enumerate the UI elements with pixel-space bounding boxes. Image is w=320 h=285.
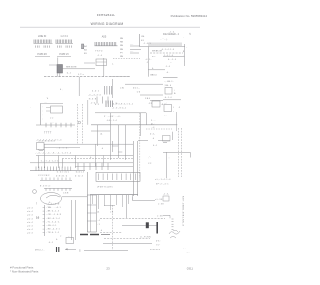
relay K1 box bbox=[57, 65, 63, 74]
wire bus E y162 bbox=[30, 162, 133, 164]
svg-text:4 : 4 -: 4 : 4 - bbox=[150, 134, 155, 136]
svg-text:= b : 4: = b : 4 bbox=[27, 229, 34, 231]
ice maker housing left edge bbox=[138, 34, 140, 47]
control module top edge bbox=[163, 77, 178, 79]
svg-text:: 4: : 4 bbox=[100, 230, 102, 232]
svg-text:4 : 1 | : 4: 4 : 1 | : 4 bbox=[75, 176, 84, 178]
ground stud dark bbox=[57, 247, 59, 252]
svg-text:(: ( bbox=[36, 201, 37, 205]
wire dashed y232 bbox=[100, 231, 122, 233]
bottom arrow wire bbox=[65, 248, 76, 250]
wire comb right vert bbox=[131, 195, 133, 201]
control board inner wire 1 bbox=[46, 107, 51, 109]
wire relay to bus bbox=[59, 73, 61, 77]
svg-text:0311: 0311 bbox=[187, 267, 194, 271]
svg-text:L : 3 8: L : 3 8 bbox=[158, 204, 164, 206]
svg-text:- 1 : 4 -: - 1 : 4 - bbox=[163, 194, 169, 196]
vertical label column bbox=[182, 196, 184, 226]
wire comb right bbox=[132, 199, 155, 201]
wire solid y243 bbox=[103, 242, 152, 244]
wire y205 jog bbox=[104, 204, 115, 206]
wire drop x140 bbox=[139, 113, 141, 136]
relay ladder down ticks bbox=[46, 188, 70, 191]
wire distribution short bbox=[91, 130, 110, 132]
svg-text:= b : 4: = b : 4 bbox=[27, 233, 34, 235]
wire cross y166 bbox=[75, 166, 133, 168]
svg-text:NN: NN bbox=[120, 56, 124, 58]
defrost heater box bbox=[163, 136, 171, 142]
mid ladder ticks bbox=[78, 163, 108, 170]
connector P2 underline bbox=[56, 43, 74, 45]
svg-text:, . , .: , . , . bbox=[50, 122, 54, 124]
wire stub x84 bbox=[84, 62, 95, 64]
wire bus feed right bbox=[147, 47, 149, 77]
svg-text:NN: NN bbox=[120, 49, 124, 51]
ice maker pin ticks bbox=[149, 43, 181, 47]
svg-text:- 4 : 1 - 4 : 1 - 4: - 4 : 1 - 4 : 1 - 4 bbox=[161, 49, 174, 51]
terminal row gray tail bbox=[101, 234, 110, 236]
svg-text:4 : 8 : 4 1 : 4: 4 : 8 : 4 1 : 4 bbox=[56, 176, 68, 178]
control board top edge bbox=[40, 103, 63, 105]
legend small box bbox=[66, 238, 74, 244]
thermistor RT1 dashed wire A bbox=[76, 104, 78, 144]
wire left tall x87 bbox=[86, 172, 88, 232]
terminal vertical v62 bbox=[61, 159, 63, 168]
wire shelf y225 bbox=[122, 224, 158, 226]
terminal n blob bbox=[82, 44, 84, 49]
svg-text:5 . . -: 5 . . - bbox=[151, 120, 156, 122]
connector P2 name underline bbox=[57, 56, 71, 58]
wire right vertical x166 bbox=[165, 152, 167, 178]
svg-text:NN: NN bbox=[120, 38, 124, 40]
svg-text:: 5: : 5 bbox=[178, 107, 180, 109]
svg-text:C S R: C S R bbox=[63, 193, 69, 195]
svg-text:- 4 :: - 4 : bbox=[166, 72, 170, 74]
svg-text:NOT-USED-4081-NN-4: NOT-USED-4081-NN-4 bbox=[182, 196, 184, 226]
svg-text:: 1 - 4: : 1 - 4 bbox=[165, 66, 170, 68]
svg-text:- 1 : 4: - 1 : 4 bbox=[97, 55, 102, 57]
svg-text:4 . 4 : 1: 4 . 4 : 1 bbox=[92, 91, 100, 93]
svg-text:- YL . 4 . -4 : 1 .: - YL . 4 . -4 : 1 . bbox=[47, 221, 61, 223]
svg-text:I.M.: I.M. bbox=[141, 36, 145, 38]
wire bus B y147 bbox=[44, 146, 80, 148]
connector P6 bars bbox=[106, 101, 113, 108]
wire compressor out bbox=[62, 196, 87, 198]
svg-text:L : 3 8: L : 3 8 bbox=[157, 216, 163, 218]
svg-text:5 ' . - : 4 0 ' : . - 4 :: 5 ' . - : 4 0 ' : . - 4 : bbox=[104, 116, 121, 118]
svg-text:: 4 - 1: : 4 - 1 bbox=[48, 242, 54, 244]
svg-text:- OR . . -1 . 4 : 8: - OR . . -1 . 4 : 8 bbox=[47, 214, 62, 216]
compressor top arc bbox=[46, 195, 60, 198]
wire drop x125 bbox=[124, 125, 126, 160]
ice maker housing bottom edge bbox=[139, 46, 185, 48]
wire shelf y100 bbox=[150, 99, 163, 101]
control board left edge bbox=[39, 104, 41, 126]
svg-text:- BK : 4 - 1 . 4: - BK : 4 - 1 . 4 bbox=[47, 211, 60, 213]
dark vertical bar bbox=[156, 222, 158, 234]
svg-text:16: 16 bbox=[36, 216, 40, 220]
svg-text:* Non-Illustrated Parts: * Non-Illustrated Parts bbox=[10, 270, 39, 274]
svg-text:SEE NOTE: SEE NOTE bbox=[66, 67, 77, 69]
wire bus A y144 bbox=[44, 143, 133, 145]
svg-text:4L: 4L bbox=[162, 104, 164, 106]
start device inner mark bbox=[96, 61, 107, 63]
wire vertical x103 bbox=[102, 156, 104, 167]
right tick y142 bbox=[163, 141, 167, 143]
connector P2 wire stubs bbox=[58, 46, 62, 48]
wire bus C y155 bbox=[36, 155, 133, 157]
svg-text:C 2 C 2 E 2: C 2 C 2 E 2 bbox=[38, 175, 50, 177]
dark junction block bbox=[146, 223, 149, 229]
svg-text:- WH . . . . -4 : 1: - WH . . . . -4 : 1 bbox=[47, 207, 62, 209]
thermistor RT1 dashed wire B bbox=[81, 104, 83, 144]
center cluster tall bars bbox=[105, 86, 112, 95]
wire right shelf stub bbox=[189, 152, 191, 157]
svg-text:LINE IN: LINE IN bbox=[38, 35, 47, 38]
svg-text:: - 4: : - 4 bbox=[151, 127, 154, 129]
right lower box bbox=[163, 196, 169, 201]
wire trunk x137 bbox=[136, 141, 138, 196]
wire dashed y238 bbox=[104, 238, 150, 240]
water valve inner rung 3 bbox=[87, 220, 96, 222]
svg-text:: 4 - 1 : 4 - 8 : 4 - 1 : 4 -: : 4 - 1 : 4 - 8 : 4 - 1 : 4 - 1 bbox=[112, 104, 133, 106]
connector P1 name underline bbox=[35, 56, 50, 58]
svg-text:P.WR.V3: P.WR.V3 bbox=[59, 54, 69, 56]
svg-text:: 4 | 1 : | 4: : 4 | 1 : | 4 bbox=[75, 172, 85, 174]
wire right shelf y152 bbox=[163, 151, 190, 153]
svg-text:= L : 3 8: = L : 3 8 bbox=[155, 199, 163, 201]
svg-text:: 8 . 3 : 8: : 8 . 3 : 8 bbox=[88, 99, 97, 101]
svg-text:3 F : 2 : - 4 : 1: 3 F : 2 : - 4 : 1 bbox=[156, 184, 169, 186]
wire module bottom bbox=[163, 99, 181, 101]
svg-text:: 4: : 4 bbox=[101, 148, 103, 150]
svg-text:A55: A55 bbox=[102, 36, 107, 39]
svg-text:: 4 - 1 : 4: : 4 - 1 : 4 bbox=[164, 97, 171, 99]
defrost heater dotted top bbox=[146, 128, 172, 130]
node bus junction bbox=[78, 77, 80, 96]
svg-text:| : | :: | : | : bbox=[50, 118, 54, 120]
svg-text:4 0 1 .-: 4 0 1 .- bbox=[133, 88, 140, 90]
svg-text:= b : 4: = b : 4 bbox=[27, 211, 34, 213]
wire vertical x95 bbox=[94, 144, 96, 166]
svg-text:# 5 °: # 5 ° bbox=[156, 245, 160, 247]
wire right dashed B bbox=[180, 128, 182, 177]
dark terminal row bbox=[80, 234, 99, 236]
terminal block J10 pins bbox=[99, 174, 136, 181]
terminal strip comb bbox=[36, 167, 71, 171]
svg-text:NN: NN bbox=[120, 42, 124, 44]
wire top right horizontal bbox=[148, 69, 165, 71]
svg-text:- 1 : 4 : - 8 : 4 - 1: - 1 : 4 : - 8 : 4 - 1 bbox=[112, 108, 126, 110]
svg-text:GBV-4: GBV-4 bbox=[150, 75, 157, 77]
svg-text:= b : 4: = b : 4 bbox=[27, 208, 34, 210]
svg-text:= b : 4: = b : 4 bbox=[27, 222, 34, 224]
svg-text:- BU : -4 : 1 - 4: - BU : -4 : 1 - 4 bbox=[47, 218, 61, 220]
svg-text:. - . .: . - . . bbox=[186, 252, 190, 254]
svg-text:. . . 4 . . 1 . . 4 . .: . . . 4 . . 1 . . 4 . . bbox=[56, 148, 69, 150]
thermostat box bbox=[165, 88, 172, 95]
defrost heater bottom right bbox=[158, 140, 170, 142]
wire staircase step2 bbox=[118, 151, 122, 153]
svg-text:L L , F L N N: L L , F L N N bbox=[140, 237, 151, 239]
wire drop x97 bbox=[96, 125, 98, 146]
connector P5 dash row bbox=[150, 52, 183, 54]
connector P1 pin row bbox=[34, 40, 51, 44]
svg-text:- 4 - 1 - 4 - 1 - 4 - 1 - 4 :: - 4 - 1 - 4 - 1 - 4 - 1 - 4 : 1 - 4 bbox=[36, 140, 62, 142]
wire distribution mid bbox=[91, 124, 177, 126]
compressor run circle bbox=[41, 193, 62, 205]
wire x126 long bbox=[125, 195, 127, 218]
dotted row under connectors bbox=[113, 57, 140, 59]
control board inner wire 2 bbox=[46, 110, 51, 112]
svg-text:- : - 4 - : - 4 - : - 4 - : -: - : - 4 - : - 4 - : - 4 - : - 8 - : - 4 … bbox=[35, 153, 71, 155]
svg-text:4 : 4: 4 : 4 bbox=[153, 145, 157, 147]
svg-text:FFHS2611L: FFHS2611L bbox=[97, 13, 115, 17]
svg-text:~; .:B4 -1 :: ~; .:B4 -1 : bbox=[164, 81, 174, 83]
wire right top horizontal bbox=[163, 56, 185, 58]
relay ladder bottom rail bbox=[44, 187, 72, 189]
svg-text:: 0 4 : - 1 : 4: : 0 4 : - 1 : 4 bbox=[106, 120, 118, 122]
terminal block J10 box bbox=[96, 172, 140, 181]
connector P1 wire stubs bbox=[36, 46, 40, 48]
svg-text:WH BK OR: WH BK OR bbox=[152, 51, 163, 53]
svg-text:- TN : 4 : 1 . 4: - TN : 4 : 1 . 4 bbox=[47, 232, 60, 234]
svg-text:. - 1 : 4 .: . - 1 : 4 . bbox=[168, 32, 175, 34]
wire to relay K1 bbox=[49, 64, 57, 66]
svg-text:- 4 .-- 4 - 4 : 4: - 4 .-- 4 - 4 : 4 bbox=[88, 95, 101, 97]
connector P4 dash rows bbox=[130, 45, 140, 47]
wire staircase x112 bbox=[111, 141, 113, 152]
svg-text:; '' :: ; '' : bbox=[148, 157, 152, 159]
wire step right bbox=[163, 214, 170, 216]
compressor start device box bbox=[96, 59, 107, 66]
transformer T1 curve bbox=[38, 150, 44, 151]
wire trunk x139 dashed bbox=[139, 113, 141, 178]
terminal vertical v38 bbox=[37, 156, 39, 169]
door switch S2 box bbox=[164, 105, 172, 112]
wire shelf y84 bbox=[125, 83, 163, 85]
defrost heater bottom left bbox=[138, 140, 148, 142]
comb bar bbox=[90, 194, 138, 196]
legend vertical wire pair bbox=[70, 200, 72, 240]
relay ladder top rail bbox=[40, 179, 72, 181]
wire shelf y95 bbox=[140, 94, 163, 96]
svg-text:- RD . -4 . 4 : 1: - RD . -4 . 4 : 1 bbox=[47, 229, 61, 231]
svg-text:.,.-:: .,.-: bbox=[164, 103, 167, 105]
wire distribution top bbox=[95, 112, 146, 114]
svg-text:= L ; - 1 - 4 : 1 - 4: = L ; - 1 - 4 : 1 - 4 bbox=[155, 179, 171, 181]
control board bottom pins bbox=[46, 123, 71, 128]
svg-text:WIRING DIAGRAM: WIRING DIAGRAM bbox=[91, 22, 124, 26]
wire bus feed left bbox=[56, 73, 58, 77]
wire from relay K1 bbox=[63, 68, 96, 70]
comb tooth 6 bbox=[121, 195, 123, 207]
transformer T1 body bbox=[37, 143, 45, 150]
wire heater riser bbox=[176, 112, 178, 131]
svg-text:NN: NN bbox=[120, 45, 124, 47]
terminal vertical v75 bbox=[74, 156, 76, 169]
connector P1 underline bbox=[34, 43, 53, 45]
svg-text:: 4: : 4 bbox=[152, 138, 154, 140]
svg-text:P.WR.R3: P.WR.R3 bbox=[37, 54, 47, 56]
svg-text:T T T T: T T T T bbox=[44, 133, 52, 135]
wire compressor vertical bbox=[103, 58, 105, 77]
svg-text:1 B 6: 1 B 6 bbox=[145, 98, 151, 100]
svg-text:= b : 4: = b : 4 bbox=[27, 218, 34, 220]
comb tooth 5 bbox=[115, 195, 117, 205]
svg-text:- - -: - - - bbox=[130, 44, 133, 46]
svg-text:: . ' ' ~ | .: : . ' ' ~ | . bbox=[160, 39, 168, 41]
wire center down x87 bbox=[87, 100, 89, 125]
svg-text:4 : - 1 : 4: 4 : - 1 : 4 bbox=[168, 59, 177, 61]
svg-text:= b : 4: = b : 4 bbox=[27, 215, 34, 217]
water valve inner rung 2 bbox=[87, 212, 96, 214]
svg-text:8 : 4 : 8 : 4 :: 8 : 4 : 8 : 4 : bbox=[40, 186, 51, 188]
svg-text:'; B4 : 4: '; B4 : 4 bbox=[164, 85, 172, 87]
svg-text:: 4 : 4 1 : 4 | : |: : 4 : 4 1 : 4 | : | bbox=[56, 172, 69, 174]
wire trunk x133 bbox=[132, 141, 134, 196]
terminal vertical v44 bbox=[43, 144, 45, 168]
damper box bbox=[152, 101, 160, 107]
compressor overload S symbol bbox=[33, 190, 37, 194]
svg-text:x x :: x x : bbox=[152, 56, 156, 58]
connector P3 pin row bbox=[95, 42, 116, 46]
wire drop x146 bbox=[145, 113, 147, 125]
comb tooth 7 bbox=[127, 195, 129, 204]
svg-text:M R d - l . .: M R d - l . . bbox=[35, 250, 45, 252]
svg-text:= b : 4: = b : 4 bbox=[27, 226, 34, 228]
bottom rail bbox=[84, 250, 128, 252]
svg-text:- GN : 4 - 1: - GN : 4 - 1 bbox=[47, 225, 58, 227]
water valve coil box bbox=[87, 195, 96, 232]
wire stub above relay bbox=[57, 58, 59, 65]
svg-text:1 2 3 4: 1 2 3 4 bbox=[60, 35, 68, 38]
water valve inner vertical bbox=[89, 195, 91, 232]
comb tooth 3 bbox=[103, 195, 105, 206]
svg-text:| F 6 R T 5 | J R 5: | F 6 R T 5 | J R 5 bbox=[97, 187, 114, 189]
terminal vertical v58 bbox=[57, 156, 59, 169]
wire staircase step1 bbox=[112, 145, 118, 147]
wire comb top right bbox=[131, 197, 133, 200]
center cluster tall bar line bbox=[111, 79, 113, 98]
wire drop x118 bbox=[117, 125, 119, 146]
svg-text:: 4 - 1: : 4 - 1 bbox=[66, 73, 71, 75]
wire dashed drop x112 bbox=[111, 205, 113, 250]
svg-text:Y X Y Z: Y X Y Z bbox=[95, 51, 103, 53]
relay ladder up ticks bbox=[42, 178, 70, 181]
wire heater vertical bbox=[171, 132, 173, 140]
legend divider ticks bbox=[43, 207, 45, 209]
control board bottom edge bbox=[36, 124, 75, 126]
svg-text:- 1 - 4 : 1 4 - 8 :: - 1 - 4 : 1 4 - 8 : bbox=[47, 204, 61, 206]
svg-text:| 4 .: | 4 . bbox=[100, 134, 104, 136]
svg-text:Publication No. 5995583414: Publication No. 5995583414 bbox=[171, 14, 208, 18]
svg-text:23: 23 bbox=[106, 267, 110, 271]
connector P2 pin row bbox=[56, 40, 72, 44]
wire dashed bus y218 bbox=[100, 217, 165, 219]
svg-text:x x x x x x x: x x x x x x x bbox=[150, 249, 160, 251]
thermistor RT1 bulb bbox=[78, 121, 81, 124]
connector P3 underline bbox=[95, 45, 118, 47]
water valve inner rung 1 bbox=[87, 204, 96, 206]
main power bus (dashed) bbox=[44, 76, 130, 78]
wire bus D y158 dashed bbox=[62, 158, 133, 160]
main power bus right segment bbox=[110, 76, 130, 78]
legend divider bbox=[44, 205, 46, 236]
svg-text:4 % :: 4 % : bbox=[156, 241, 161, 243]
terminal strip baseline bbox=[30, 170, 85, 172]
svg-text:- 1 : 4 - 1: - 1 : 4 - 1 bbox=[143, 43, 151, 45]
control board inner IC box bbox=[51, 106, 63, 113]
svg-text:4 L :: 4 L : bbox=[151, 124, 155, 126]
center cluster bars bbox=[97, 97, 108, 104]
condenser fan scribble bbox=[169, 230, 180, 238]
wire right dashed A bbox=[177, 128, 179, 177]
comb tooth 4 bbox=[109, 195, 111, 210]
wire staircase x118 bbox=[117, 146, 119, 158]
comb tooth 2 bbox=[97, 195, 99, 209]
right margin vertical wire bbox=[184, 44, 186, 66]
comb tooth 1 bbox=[91, 195, 93, 204]
header rule bbox=[20, 26, 200, 28]
dashes column x172 bbox=[172, 218, 174, 220]
svg-text:J. T. v: J. T. v bbox=[78, 74, 85, 76]
svg-text:- - -: - - - bbox=[130, 51, 133, 53]
wire drop x110 bbox=[109, 113, 111, 160]
svg-text:: 1 - 4 : 1 - 4 : 1 - 4 : 1: : 1 - 4 : 1 - 4 : 1 - 4 : 1 bbox=[40, 161, 58, 163]
